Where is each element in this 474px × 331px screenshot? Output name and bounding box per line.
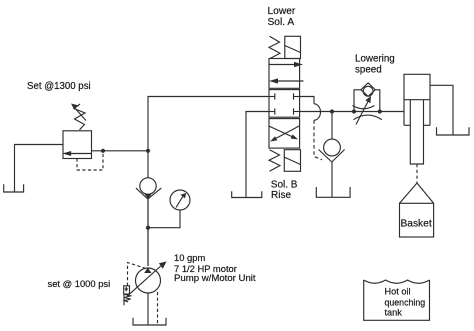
- cylinder rod: [410, 100, 423, 164]
- hanger triangle: [400, 183, 434, 203]
- wire relief branch: [92, 150, 149, 152]
- wire check valve to pump: [147, 199, 149, 266]
- wire branch down to pilot check: [331, 112, 333, 140]
- valve 4/3 DCV middle box closed center: [269, 90, 300, 118]
- pump P1 variable displacement: [136, 268, 161, 293]
- wire pump case drain dashed: [157, 292, 159, 325]
- wire pump outlet to P-port corner: [147, 199, 149, 266]
- wire cap-end vent: [430, 85, 453, 135]
- spring valve bottom: [269, 150, 280, 172]
- node flow control right junction: [378, 109, 382, 113]
- wire T-port to tank: [246, 112, 269, 198]
- valve flow control bypass loop: [354, 90, 361, 112]
- ground tank symbol left: [4, 184, 24, 192]
- wire check valve to valve P line: [148, 97, 269, 178]
- svg-text:Sol. A: Sol. A: [268, 17, 295, 28]
- wire relief internal arrow: [70, 153, 92, 155]
- wire A-port crossover: [300, 97, 314, 104]
- basket box: [400, 203, 434, 237]
- node relief branch junction: [146, 149, 150, 153]
- ground tank symbol under T line: [232, 191, 262, 197]
- svg-text:set @ 1000 psi: set @ 1000 psi: [48, 278, 111, 289]
- svg-text:Pump w/Motor Unit: Pump w/Motor Unit: [174, 273, 256, 284]
- cylinder C1 body: [404, 74, 430, 125]
- check valve CV1 above pump: [140, 178, 156, 194]
- gauge pressure gauge: [170, 190, 190, 210]
- solenoid A coil: [285, 36, 301, 58]
- ground tank symbol right of cylinder: [437, 127, 470, 135]
- node flow control left junction: [352, 109, 356, 113]
- svg-text:quenching: quenching: [385, 297, 426, 307]
- valve 4/3 DCV top box: [269, 59, 300, 89]
- wire hanger dashed: [416, 164, 418, 183]
- check valve in bypass (ball in diamond seat): [361, 83, 375, 97]
- wire compensator pilot dashed: [128, 263, 145, 286]
- wire pilot line dashed to check: [314, 120, 322, 160]
- svg-text:7 1/2 HP motor: 7 1/2 HP motor: [174, 263, 237, 274]
- solenoid B coil: [284, 150, 300, 172]
- resistor relief valve box: [63, 131, 92, 159]
- svg-text:Lowering: Lowering: [355, 54, 395, 65]
- spring relief adjustable spring: [74, 104, 85, 130]
- svg-text:Hot oil: Hot oil: [385, 287, 411, 297]
- node junction to pilot check: [330, 109, 334, 113]
- node gauge tee junction: [146, 226, 150, 230]
- svg-text:10 gpm: 10 gpm: [174, 252, 205, 263]
- svg-text:Sol. B: Sol. B: [271, 179, 298, 190]
- check valve pilot-operated CV2: [324, 139, 341, 156]
- compensator set @1000 psi: [124, 286, 130, 294]
- svg-text:Lower: Lower: [268, 6, 296, 17]
- spring valve top: [269, 36, 280, 58]
- node pilot junction at relief outlet: [101, 149, 105, 153]
- wire check to tank: [331, 162, 333, 197]
- throttle variable orifice: [353, 106, 375, 109]
- svg-text:Set @1300 psi: Set @1300 psi: [27, 81, 91, 92]
- tank hot oil quenching tank: [364, 280, 430, 320]
- svg-text:Basket: Basket: [401, 218, 432, 229]
- wire relief valve to tank: [15, 145, 64, 192]
- wire gauge branch: [148, 210, 180, 228]
- valve 4/3 DCV bottom box crossed: [269, 119, 300, 149]
- wire relief pilot dashed: [77, 153, 103, 170]
- svg-text:tank: tank: [385, 308, 403, 318]
- ground tank symbol under pilot check: [316, 187, 350, 197]
- wire pump suction: [147, 293, 149, 325]
- wire B-port main line to cylinder: [300, 111, 404, 113]
- ground tank symbol under pump: [133, 318, 166, 325]
- svg-text:Rise: Rise: [271, 190, 291, 201]
- svg-text:speed: speed: [355, 64, 382, 75]
